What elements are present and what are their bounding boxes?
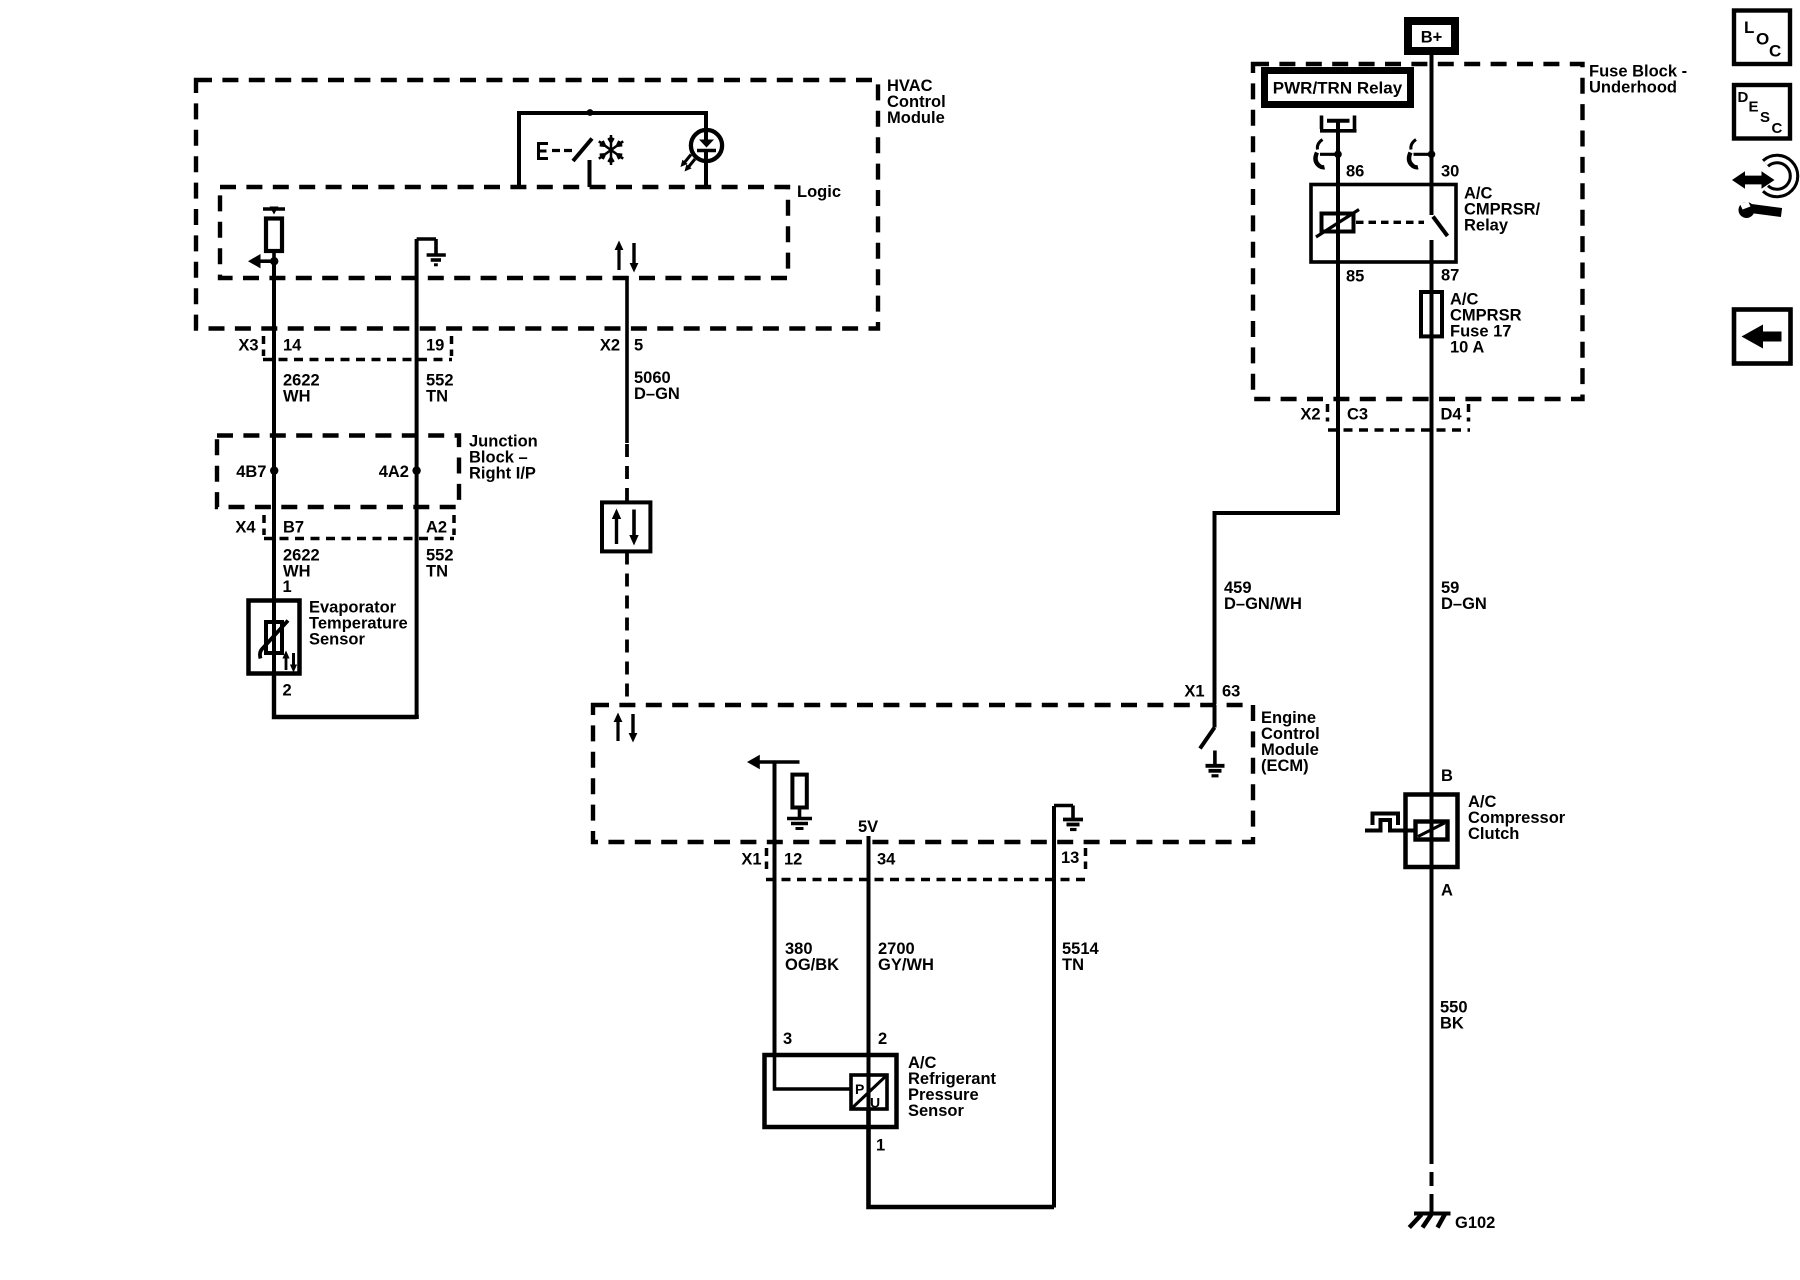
connector X3 row bbox=[238, 336, 452, 360]
svg-text:Sensor: Sensor bbox=[908, 1102, 965, 1120]
node 4B7 bbox=[236, 463, 278, 481]
switch S1 A/C request bbox=[537, 139, 592, 188]
A/C Refrigerant Pressure Sensor box bbox=[765, 1054, 997, 1127]
wire dashed 550 BK bbox=[1430, 1150, 1434, 1206]
connector X1 pin 63 bbox=[1184, 683, 1240, 701]
relay switch blade bbox=[1432, 55, 1448, 236]
relay link dashed bbox=[1356, 221, 1424, 224]
svg-text:Relay: Relay bbox=[1464, 217, 1509, 235]
A/C CMPRSR Relay box bbox=[1311, 185, 1541, 263]
svg-text:A2: A2 bbox=[426, 519, 447, 537]
P/U transducer symbol bbox=[851, 1075, 887, 1111]
svg-text:D: D bbox=[1738, 89, 1749, 106]
svg-text:B: B bbox=[1441, 767, 1453, 785]
svg-text:TN: TN bbox=[426, 563, 448, 581]
wire top switch loop bbox=[519, 113, 706, 187]
snowflake icon bbox=[599, 135, 623, 165]
ground G logic bbox=[417, 239, 446, 265]
serial data box bbox=[602, 502, 650, 551]
wire 380 inside ECM with arrow bbox=[747, 755, 800, 841]
wire 5514 TN bbox=[1052, 841, 1056, 1208]
svg-text:Sensor: Sensor bbox=[309, 631, 366, 649]
svg-text:3: 3 bbox=[783, 1030, 792, 1048]
wire labels 459 / 59 bbox=[1224, 579, 1487, 613]
icon LOC box bbox=[1734, 11, 1790, 65]
serial data arrows logic bbox=[615, 241, 639, 273]
clutch mechanical linkage bbox=[1365, 814, 1416, 831]
svg-text:5V: 5V bbox=[858, 818, 878, 836]
node junction top bbox=[587, 109, 594, 116]
svg-text:Underhood: Underhood bbox=[1589, 79, 1677, 97]
svg-text:B+: B+ bbox=[1421, 29, 1443, 47]
svg-text:86: 86 bbox=[1346, 163, 1364, 181]
svg-text:19: 19 bbox=[426, 337, 444, 355]
connector terminal 30 hook bbox=[1409, 140, 1435, 168]
connector terminal 86 hook bbox=[1315, 140, 1341, 168]
connector X2 pin 5 bbox=[600, 337, 643, 355]
svg-text:4B7: 4B7 bbox=[236, 463, 266, 481]
serial data arrows ECM bbox=[614, 713, 638, 743]
svg-text:2: 2 bbox=[878, 1030, 887, 1048]
svg-text:14: 14 bbox=[283, 337, 302, 355]
ground ECM 63 bbox=[1206, 751, 1225, 776]
wire sensor out pin 1 bbox=[869, 1109, 1055, 1207]
svg-text:C: C bbox=[1769, 42, 1781, 61]
resistor R2 ECM bbox=[792, 775, 806, 817]
A/C Compressor Clutch box bbox=[1406, 793, 1566, 867]
wire 552 TN bbox=[415, 239, 419, 719]
svg-text:87: 87 bbox=[1441, 267, 1459, 285]
wire dashed 5060 lower bbox=[625, 552, 629, 705]
svg-text:63: 63 bbox=[1222, 683, 1240, 701]
svg-text:10 A: 10 A bbox=[1450, 339, 1484, 357]
ECM switch blade 63 bbox=[1200, 705, 1215, 749]
resistor R1 in logic bbox=[263, 207, 285, 259]
svg-text:85: 85 bbox=[1346, 268, 1364, 286]
svg-text:BK: BK bbox=[1440, 1015, 1464, 1033]
svg-text:GY/WH: GY/WH bbox=[878, 956, 934, 974]
svg-text:E: E bbox=[1749, 99, 1759, 116]
svg-text:O: O bbox=[1756, 30, 1769, 49]
icon DESC box bbox=[1734, 85, 1790, 139]
Evaporator Temperature Sensor box bbox=[249, 599, 408, 674]
svg-text:U: U bbox=[870, 1095, 880, 1111]
svg-text:5: 5 bbox=[634, 337, 643, 355]
ground ECM R2 bbox=[787, 819, 812, 829]
svg-text:WH: WH bbox=[283, 388, 311, 406]
svg-text:X1: X1 bbox=[741, 851, 761, 869]
svg-text:B7: B7 bbox=[283, 519, 304, 537]
wire labels top bbox=[283, 369, 680, 406]
B+ battery feed box bbox=[1404, 17, 1459, 55]
wire 59 D-GN main bbox=[1430, 240, 1434, 1150]
Junction Block - Right I/P box bbox=[217, 433, 538, 508]
clutch coil L1 bbox=[1416, 793, 1448, 870]
PWR/TRN Relay label box bbox=[1261, 67, 1414, 108]
svg-text:D4: D4 bbox=[1441, 406, 1463, 424]
svg-text:PWR/TRN Relay: PWR/TRN Relay bbox=[1273, 79, 1403, 98]
icon double arrow wrench bbox=[1732, 159, 1794, 218]
svg-text:P: P bbox=[855, 1081, 864, 1097]
wire 380 OG/BK bbox=[773, 841, 777, 1053]
svg-text:(ECM): (ECM) bbox=[1261, 757, 1309, 775]
wire labels 550 BK bbox=[1440, 999, 1468, 1033]
wire labels lower bbox=[785, 940, 1100, 974]
connector X2 row bbox=[1300, 404, 1470, 430]
ground G102 bbox=[1409, 1204, 1495, 1232]
LED indicator lamp bbox=[681, 128, 723, 187]
icon back arrow box bbox=[1734, 310, 1791, 364]
svg-text:1: 1 bbox=[876, 1137, 885, 1155]
svg-text:TN: TN bbox=[426, 388, 448, 406]
svg-text:G102: G102 bbox=[1455, 1214, 1495, 1232]
Engine Control Module box bbox=[593, 705, 1320, 842]
svg-text:Logic: Logic bbox=[797, 183, 841, 201]
svg-text:C3: C3 bbox=[1347, 406, 1368, 424]
Fuse Block - Underhood box bbox=[1253, 63, 1687, 400]
svg-text:D–GN: D–GN bbox=[634, 385, 680, 403]
node 4A2 bbox=[379, 463, 421, 481]
svg-text:OG/BK: OG/BK bbox=[785, 956, 839, 974]
svg-text:X2: X2 bbox=[600, 337, 620, 355]
arrow out left bbox=[248, 254, 272, 268]
svg-text:D–GN: D–GN bbox=[1441, 595, 1487, 613]
relay coil K1 bbox=[1316, 153, 1359, 401]
svg-text:12: 12 bbox=[784, 851, 802, 869]
svg-text:X3: X3 bbox=[238, 337, 258, 355]
node 5V bbox=[858, 818, 878, 841]
wire evap bottom loop bbox=[274, 676, 417, 719]
fuse F17 bbox=[1421, 291, 1522, 357]
svg-text:X2: X2 bbox=[1300, 406, 1320, 424]
svg-text:S: S bbox=[1760, 109, 1770, 126]
svg-text:Clutch: Clutch bbox=[1468, 825, 1519, 843]
svg-text:4A2: 4A2 bbox=[379, 463, 409, 481]
wire 459 D-GN/WH bbox=[1215, 400, 1339, 704]
HVAC Control Module box bbox=[196, 77, 946, 329]
svg-text:30: 30 bbox=[1441, 163, 1459, 181]
svg-text:D–GN/WH: D–GN/WH bbox=[1224, 595, 1302, 613]
connector X1 row ECM bbox=[741, 848, 1086, 880]
svg-text:TN: TN bbox=[1062, 956, 1084, 974]
svg-text:13: 13 bbox=[1061, 849, 1079, 867]
svg-text:C: C bbox=[1772, 120, 1783, 137]
Logic box bbox=[220, 183, 841, 278]
svg-text:Right I/P: Right I/P bbox=[469, 465, 536, 483]
terminal bracket PWR/TRN bbox=[1320, 116, 1357, 153]
wire 380 into sensor bbox=[775, 1053, 852, 1089]
connector X4 row bbox=[235, 515, 454, 539]
wire dashed 5060 bbox=[625, 444, 629, 502]
wire 2700 GY/WH bbox=[867, 841, 871, 1075]
evap arrows bbox=[282, 651, 297, 673]
svg-text:L: L bbox=[1744, 18, 1754, 37]
svg-text:2: 2 bbox=[283, 682, 292, 700]
svg-text:1: 1 bbox=[283, 578, 292, 596]
svg-text:X1: X1 bbox=[1184, 683, 1204, 701]
svg-text:Module: Module bbox=[887, 109, 945, 127]
thermistor RT1 bbox=[260, 598, 288, 676]
svg-text:X4: X4 bbox=[235, 519, 256, 537]
wire 5060 D-GN bbox=[625, 276, 629, 443]
wire labels mid bbox=[283, 547, 454, 581]
svg-text:A: A bbox=[1441, 882, 1453, 900]
wire 2622 WH bbox=[272, 263, 276, 598]
node dot 2622 bbox=[270, 257, 278, 265]
ground ECM pin13 bbox=[1054, 806, 1083, 842]
svg-text:34: 34 bbox=[877, 851, 896, 869]
